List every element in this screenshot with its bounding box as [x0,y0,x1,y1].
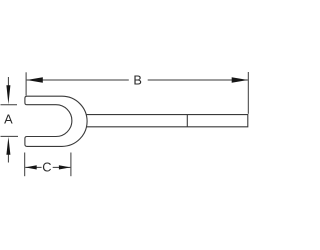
dimension C extension line left [24,153,26,177]
svg-text:B: B [133,72,142,87]
dimension A top arrow [7,77,9,87]
fork head outline [25,96,87,146]
svg-text:A: A [4,111,13,126]
dimension C right arrow [59,165,71,169]
handle [86,115,247,127]
handle segment divider [186,115,188,127]
dimension C extension line right [70,153,72,177]
dimension B extension line left [25,72,27,95]
dimension A extension line bottom [1,135,19,137]
dimension B left arrow [27,77,43,82]
dimension B extension line right [247,72,249,114]
dimension A extension line top [1,104,18,106]
dimension C line [25,166,41,168]
dimension B right arrow [232,77,248,82]
dimension A bottom arrow [7,154,9,163]
dimension B line [27,79,129,81]
dimension C left arrow [25,165,37,169]
svg-text:C: C [42,160,51,175]
